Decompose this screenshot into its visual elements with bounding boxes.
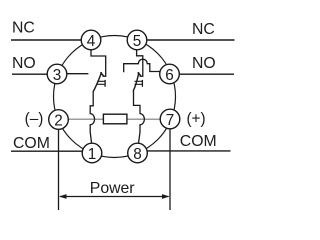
svg-text:COM: COM: [13, 135, 50, 152]
svg-text:(+): (+): [186, 111, 205, 128]
svg-text:4: 4: [87, 33, 96, 50]
pin 8: [128, 143, 148, 163]
svg-text:3: 3: [53, 67, 62, 84]
svg-text:2: 2: [54, 113, 63, 130]
svg-text:Power: Power: [90, 180, 135, 197]
wire pin3 NO stub: [67, 73, 88, 75]
right contact blade: [133, 72, 139, 91]
coil wire right (coil to pin7): [127, 118, 161, 120]
wire pin4 to NC fixed contact: [91, 50, 106, 76]
dimension extension line below pin 7: [169, 127, 171, 210]
svg-text:6: 6: [165, 67, 174, 84]
svg-text:7: 7: [166, 112, 175, 129]
dimension extension line below pin 2: [58, 127, 60, 210]
left contact blade: [93, 72, 101, 91]
wire COM right: [148, 150, 231, 152]
wire NC left: [11, 39, 81, 41]
wire blade common to pin8 with hop over coil wire: [134, 91, 145, 144]
svg-text:8: 8: [133, 146, 142, 163]
left contact twin bars: [97, 80, 105, 82]
pin 6: [160, 64, 180, 84]
pin 7: [160, 109, 180, 129]
pin 3: [47, 64, 67, 84]
wire pin5 to NC fixed contact: [137, 50, 143, 76]
svg-text:5: 5: [133, 33, 142, 50]
coil wire left (pin2 to coil): [68, 118, 103, 120]
right NC moving contact tick: [138, 72, 141, 75]
wire NC right: [148, 39, 235, 41]
dimension arrow Power: [60, 196, 169, 198]
pin 5: [127, 30, 147, 50]
svg-text:NO: NO: [192, 55, 216, 72]
svg-text:(–): (–): [25, 111, 44, 128]
pin 1: [82, 143, 102, 163]
svg-text:COM: COM: [180, 133, 217, 150]
socket outline circle: [54, 36, 176, 158]
right contact twin bars: [135, 80, 143, 82]
left NC moving contact tick: [100, 72, 103, 75]
wire NO right: [180, 73, 235, 75]
wire NO left: [12, 73, 47, 75]
svg-text:NO: NO: [12, 55, 36, 72]
wire COM left: [11, 150, 82, 152]
svg-text:NC: NC: [12, 20, 35, 37]
svg-text:NC: NC: [192, 21, 215, 38]
wire blade common to pin1 with hop over coil wire: [90, 91, 94, 144]
pin 2: [49, 110, 69, 130]
coil K1: [103, 114, 127, 124]
pin 4: [81, 30, 101, 50]
svg-text:1: 1: [88, 146, 97, 163]
wire pin6 NO with hop over pin5 wire: [124, 59, 161, 72]
